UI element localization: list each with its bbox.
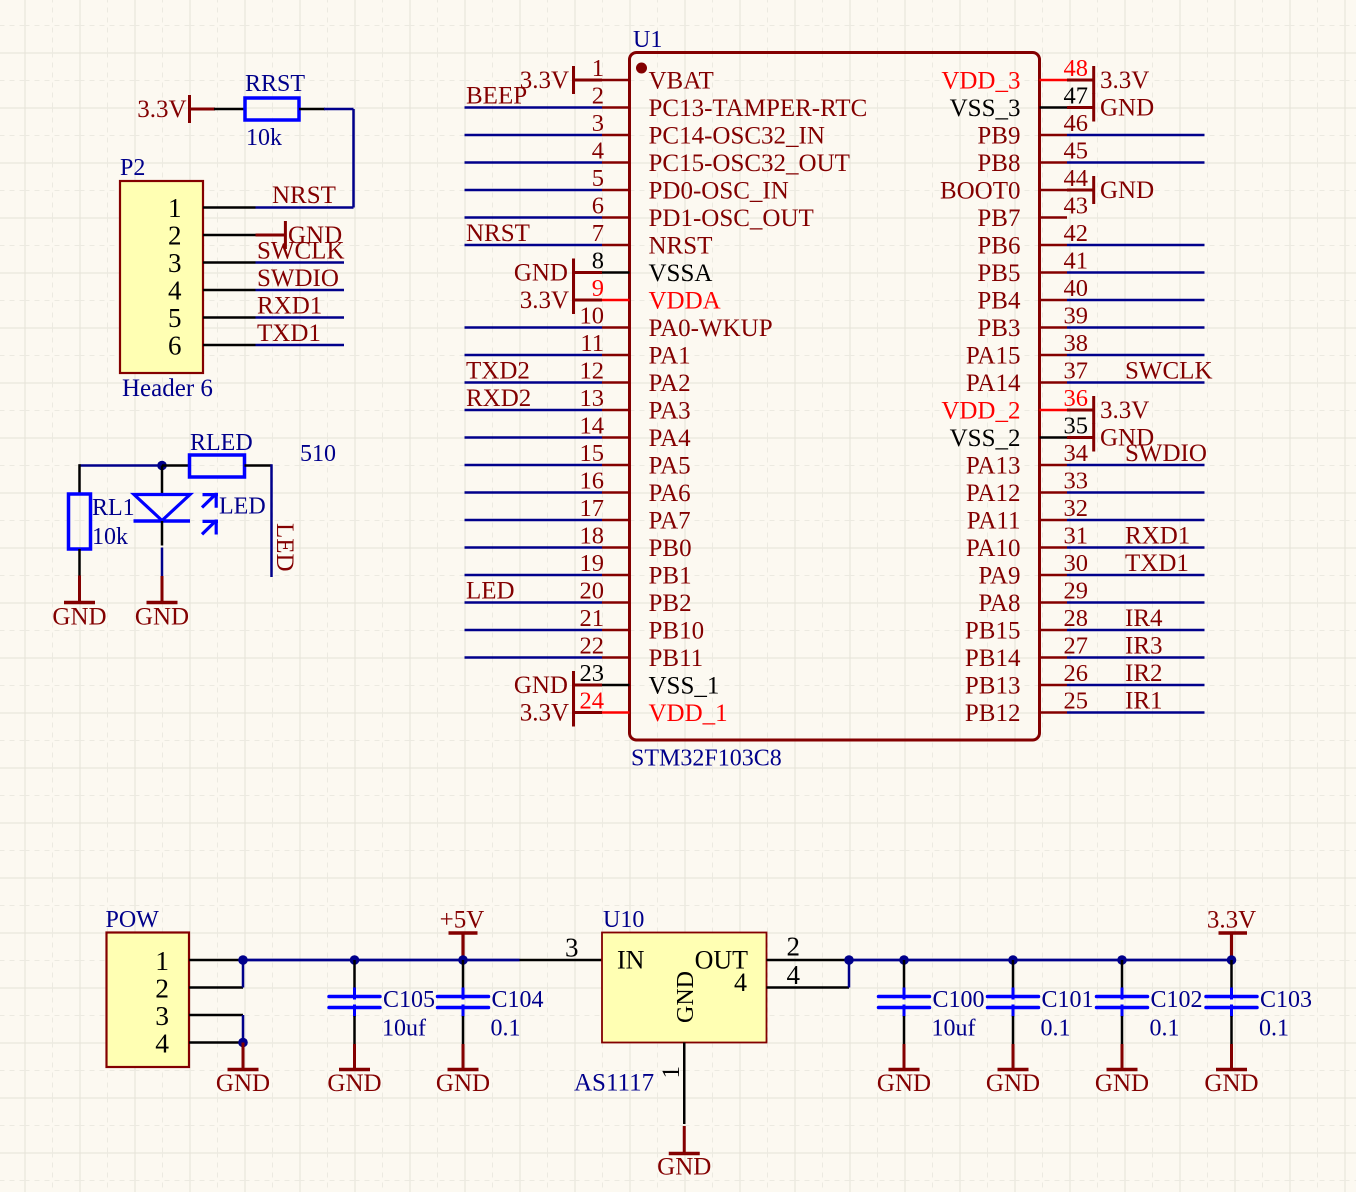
svg-text:PB8: PB8: [977, 150, 1020, 177]
svg-text:TXD1: TXD1: [1125, 550, 1189, 577]
svg-text:AS1117: AS1117: [574, 1070, 654, 1097]
ground below C105: [353, 1044, 356, 1070]
svg-text:PA1: PA1: [649, 343, 691, 370]
wire U1 pin 12: [465, 381, 603, 384]
wire POW pin3 to pin4: [242, 1015, 245, 1043]
svg-text:3.3V: 3.3V: [1100, 67, 1149, 94]
svg-text:2: 2: [592, 83, 604, 110]
svg-text:18: 18: [580, 523, 605, 550]
svg-text:C104: C104: [492, 987, 544, 1013]
LED emission arrows: [202, 493, 218, 535]
svg-text:IN: IN: [617, 946, 645, 975]
U1 pin 39 (PB3): [977, 303, 1088, 343]
svg-text:46: 46: [1064, 110, 1089, 137]
power +5V: [440, 907, 485, 961]
U10 pin 4: [767, 960, 850, 990]
ground GND at U1 pin 23: [514, 671, 602, 699]
svg-text:0.1: 0.1: [1150, 1016, 1180, 1042]
svg-text:VSS_3: VSS_3: [950, 95, 1021, 122]
ground below RL1: [78, 576, 81, 603]
svg-text:C100: C100: [933, 987, 985, 1013]
svg-text:PA0-WKUP: PA0-WKUP: [649, 315, 773, 342]
svg-text:17: 17: [580, 495, 605, 522]
ground below POW: [242, 1043, 245, 1070]
svg-text:19: 19: [580, 550, 605, 577]
svg-text:NRST: NRST: [466, 220, 530, 247]
svg-text:GND: GND: [657, 1154, 711, 1181]
svg-text:3.3V: 3.3V: [520, 287, 569, 314]
svg-text:10uf: 10uf: [932, 1016, 976, 1042]
svg-text:24: 24: [580, 688, 605, 715]
U1 pin 37 (PA14): [966, 358, 1088, 398]
U1 pin 10 (PA0-WKUP): [580, 303, 773, 343]
svg-text:PA3: PA3: [649, 398, 691, 425]
svg-text:15: 15: [580, 440, 605, 467]
svg-text:3: 3: [565, 933, 579, 963]
svg-text:PA6: PA6: [649, 480, 691, 507]
svg-text:RLED: RLED: [190, 430, 253, 456]
U1 pin 2 (PC13-TAMPER-RTC): [592, 83, 868, 123]
U1 pin 6 (PD1-OSC_OUT): [592, 193, 814, 233]
POW pin 3: [155, 1000, 243, 1031]
svg-text:1: 1: [168, 193, 182, 223]
svg-text:32: 32: [1064, 495, 1089, 522]
svg-text:26: 26: [1064, 660, 1089, 687]
svg-text:RXD2: RXD2: [466, 385, 531, 412]
svg-text:3.3V: 3.3V: [520, 700, 569, 727]
U1 pin 34 (PA13): [966, 440, 1088, 480]
wire LED top rail: [80, 464, 163, 494]
svg-text:PA13: PA13: [966, 453, 1021, 480]
svg-text:10k: 10k: [92, 524, 128, 550]
svg-text:44: 44: [1064, 165, 1089, 192]
svg-text:GND: GND: [436, 1070, 490, 1097]
junction LED rail: [157, 461, 167, 471]
ground below C103: [1230, 1044, 1233, 1070]
svg-text:4: 4: [734, 968, 747, 997]
resistor RLED: [190, 455, 272, 477]
svg-text:PB5: PB5: [977, 260, 1020, 287]
wire P2 SWDIO: [256, 289, 345, 292]
capacitor C103: [1206, 960, 1257, 1044]
svg-text:25: 25: [1064, 688, 1089, 715]
U1 pin 17 (PA7): [580, 495, 691, 535]
svg-text:GND: GND: [514, 672, 568, 699]
svg-text:12: 12: [580, 358, 605, 385]
capacitor C104: [438, 960, 489, 1044]
wire U1 pin 5: [465, 189, 603, 192]
svg-text:510: 510: [300, 441, 336, 467]
svg-text:IR2: IR2: [1125, 660, 1163, 687]
svg-text:29: 29: [1064, 578, 1089, 605]
wire U1 pin 22: [465, 656, 603, 659]
svg-text:9: 9: [592, 275, 604, 302]
U1 pin 15 (PA5): [580, 440, 691, 480]
wire U1 pin 14: [465, 436, 603, 439]
U1 pin 24 (VDD_1): [580, 688, 728, 728]
U1 pin 35 (VSS_2): [950, 413, 1088, 453]
svg-text:1: 1: [592, 55, 604, 82]
wire 3.3V rail: [849, 959, 1232, 962]
svg-text:34: 34: [1064, 440, 1089, 467]
svg-text:0.1: 0.1: [1259, 1016, 1289, 1042]
svg-text:41: 41: [1064, 248, 1089, 275]
capacitor C100: [879, 960, 930, 1044]
svg-text:SWCLK: SWCLK: [257, 238, 345, 265]
svg-text:GND: GND: [986, 1070, 1040, 1097]
svg-text:BOOT0: BOOT0: [940, 178, 1021, 205]
svg-text:BEEP: BEEP: [466, 83, 527, 110]
P2 pin 4: [168, 276, 256, 306]
svg-text:8: 8: [592, 248, 604, 275]
svg-text:PC14-OSC32_IN: PC14-OSC32_IN: [649, 123, 825, 150]
svg-text:PA9: PA9: [978, 563, 1020, 590]
svg-text:3: 3: [168, 248, 182, 278]
capacitor C102: [1097, 960, 1148, 1044]
svg-text:22: 22: [580, 633, 605, 660]
svg-text:5: 5: [168, 303, 182, 333]
U1 pin 1 (VBAT): [592, 55, 714, 95]
ground GND at U1 pin 8: [514, 259, 602, 287]
svg-text:U10: U10: [603, 907, 644, 933]
wire U1 pin 11: [465, 354, 603, 357]
junction C104: [458, 955, 468, 965]
connector P2 Header 6 body: [120, 181, 203, 373]
svg-text:STM32F103C8: STM32F103C8: [631, 746, 782, 772]
svg-text:4: 4: [168, 276, 182, 306]
svg-text:3.3V: 3.3V: [1100, 397, 1149, 424]
wire U1 pin 41: [1067, 271, 1205, 274]
svg-text:4: 4: [155, 1028, 169, 1059]
svg-text:3.3V: 3.3V: [137, 96, 186, 123]
svg-text:14: 14: [580, 413, 605, 440]
U1 pin 41 (PB5): [977, 248, 1088, 288]
svg-text:GND: GND: [135, 604, 189, 631]
svg-text:1: 1: [658, 1066, 685, 1079]
svg-text:PD1-OSC_OUT: PD1-OSC_OUT: [649, 205, 814, 232]
ground below U10: [683, 1126, 686, 1154]
svg-text:42: 42: [1064, 220, 1089, 247]
svg-text:PA12: PA12: [966, 480, 1021, 507]
svg-text:PA8: PA8: [978, 590, 1020, 617]
ground below LED: [161, 576, 164, 603]
wire U1 pin 26: [1067, 684, 1205, 687]
wire U1 pin 13: [465, 409, 603, 412]
wire U1 pin 39: [1067, 326, 1205, 329]
U1 pin 32 (PA11): [967, 495, 1088, 535]
svg-text:PB15: PB15: [965, 618, 1021, 645]
U10 pin 3 (IN): [520, 933, 603, 963]
U1 pin 29 (PA8): [978, 578, 1088, 618]
wire U1 pin 31: [1067, 546, 1205, 549]
resistor RL1: [69, 494, 91, 576]
P2 pin 2: [168, 221, 256, 251]
svg-text:43: 43: [1064, 193, 1089, 220]
svg-text:LED: LED: [466, 578, 515, 605]
U1 pin 40 (PB4): [977, 275, 1088, 315]
ground GND at P2 pin 2: [256, 221, 343, 249]
wire U1 pin 18: [465, 546, 603, 549]
ground below C102: [1121, 1044, 1124, 1070]
wire U1 pin 45: [1067, 161, 1205, 164]
junction POW pin4: [238, 1038, 248, 1048]
U1 pin 47 (VSS_3): [950, 83, 1088, 123]
svg-text:PB10: PB10: [649, 618, 705, 645]
wire U1 pin 17: [465, 519, 603, 522]
P2 pin 3: [168, 248, 256, 278]
wire U1 pin 30: [1067, 574, 1205, 577]
junction C101: [1008, 955, 1018, 965]
svg-text:GND: GND: [216, 1070, 270, 1097]
wire LED cathode to ground: [161, 548, 164, 577]
U1 pin 48 (VDD_3): [941, 55, 1088, 95]
U1 pin 18 (PB0): [580, 523, 692, 563]
svg-text:PB12: PB12: [965, 700, 1021, 727]
svg-text:GND: GND: [1100, 95, 1154, 122]
P2 pin 5: [168, 303, 256, 333]
svg-text:40: 40: [1064, 275, 1089, 302]
svg-text:4: 4: [787, 960, 801, 990]
wire U1 pin 2: [465, 106, 603, 109]
svg-text:2: 2: [155, 973, 169, 1004]
U1 pin 21 (PB10): [580, 605, 705, 645]
svg-text:3: 3: [592, 110, 604, 137]
wire P2 RXD1: [256, 316, 345, 319]
svg-text:PA4: PA4: [649, 425, 692, 452]
wire U1 pin 25: [1067, 711, 1205, 714]
wire U1 pin 29: [1067, 601, 1205, 604]
svg-text:0.1: 0.1: [1041, 1016, 1071, 1042]
connector POW body: [107, 933, 190, 1068]
POW pin 1: [155, 945, 243, 976]
junction C105: [350, 955, 360, 965]
svg-text:1: 1: [155, 945, 169, 976]
U1 pin 36 (VDD_2): [941, 385, 1088, 425]
svg-text:POW: POW: [106, 907, 160, 933]
svg-text:11: 11: [580, 330, 604, 357]
wire 3.3V to RRST: [214, 108, 245, 111]
U1 pin 33 (PA12): [966, 468, 1088, 508]
wire U1 pin 46: [1067, 134, 1205, 137]
junction C103: [1227, 955, 1237, 965]
wire U1 pin 3: [465, 134, 603, 137]
POW pin 2: [155, 973, 243, 1004]
svg-text:47: 47: [1064, 83, 1089, 110]
svg-text:31: 31: [1064, 523, 1089, 550]
svg-text:VDDA: VDDA: [649, 288, 721, 315]
wire U1 pin 32: [1067, 519, 1205, 522]
svg-text:35: 35: [1064, 413, 1089, 440]
svg-text:28: 28: [1064, 605, 1089, 632]
wire junction to LED anode: [161, 466, 164, 495]
U10 pin 2 (OUT): [767, 932, 850, 962]
svg-text:6: 6: [592, 193, 604, 220]
svg-text:GND: GND: [514, 260, 568, 287]
wire P2 TXD1: [256, 344, 345, 347]
capacitor C101: [988, 960, 1039, 1044]
svg-text:RL1: RL1: [92, 495, 135, 521]
wire U1 pin 20: [465, 601, 603, 604]
wire U1 pin 7: [465, 244, 603, 247]
svg-text:C105: C105: [383, 987, 435, 1013]
U1 pin 45 (PB8): [977, 138, 1088, 178]
wire U1 pin 42: [1067, 244, 1205, 247]
wire U1 pin 21: [465, 629, 603, 632]
svg-text:10: 10: [580, 303, 605, 330]
svg-text:3.3V: 3.3V: [1207, 907, 1256, 934]
wire P2 SWCLK: [256, 261, 345, 264]
svg-text:LED: LED: [219, 494, 266, 520]
svg-text:SWDIO: SWDIO: [257, 265, 339, 292]
svg-text:+5V: +5V: [440, 907, 485, 934]
svg-text:GND: GND: [877, 1070, 931, 1097]
svg-text:PB9: PB9: [977, 123, 1020, 150]
U1 pin 31 (PA10): [966, 523, 1088, 563]
wire U1 pin 16: [465, 491, 603, 494]
svg-text:LED: LED: [271, 523, 298, 572]
svg-text:PA7: PA7: [649, 508, 691, 535]
U1 pin 42 (PB6): [977, 220, 1088, 260]
svg-text:GND: GND: [1204, 1070, 1258, 1097]
U1 pin 26 (PB13): [965, 660, 1088, 700]
wire U1 pin 4: [465, 161, 603, 164]
svg-text:RXD1: RXD1: [257, 293, 322, 320]
power 3.3V at U1 pin 9: [520, 286, 602, 314]
svg-text:39: 39: [1064, 303, 1089, 330]
U1 pin 30 (PA9): [978, 550, 1088, 590]
svg-text:5: 5: [592, 165, 604, 192]
U1 pin 20 (PB2): [580, 578, 692, 618]
svg-text:7: 7: [592, 220, 604, 247]
wire U1 pin 19: [465, 574, 603, 577]
svg-text:GND: GND: [673, 971, 699, 1023]
wire RLED down to LED net: [270, 464, 273, 577]
svg-text:PA11: PA11: [967, 508, 1021, 535]
svg-text:6: 6: [168, 331, 182, 361]
svg-text:2: 2: [787, 932, 801, 962]
svg-text:GND: GND: [52, 604, 106, 631]
capacitor C105: [329, 960, 380, 1044]
voltage regulator U10 AS1117 body: [602, 933, 767, 1043]
wire U1 pin 15: [465, 464, 603, 467]
svg-text:PB2: PB2: [649, 590, 692, 617]
P2 pin 6: [168, 331, 256, 361]
diode LED: [134, 495, 191, 546]
svg-text:10k: 10k: [246, 125, 282, 151]
svg-text:SWCLK: SWCLK: [1125, 358, 1213, 385]
ground GND at U1 pin 47: [1067, 94, 1154, 122]
svg-text:37: 37: [1064, 358, 1089, 385]
svg-text:VSSA: VSSA: [649, 260, 713, 287]
IC U1 STM32F103C8 body: [630, 53, 1040, 741]
svg-text:NRST: NRST: [649, 233, 713, 260]
svg-text:38: 38: [1064, 330, 1089, 357]
junction C102: [1117, 955, 1127, 965]
power 3.3V (RRST pull-up): [137, 95, 215, 123]
svg-text:0.1: 0.1: [491, 1016, 521, 1042]
P2 pin 1: [168, 193, 256, 223]
wire U1 pin 37: [1067, 381, 1205, 384]
wire junction to RLED: [162, 464, 190, 467]
svg-text:RXD1: RXD1: [1125, 523, 1190, 550]
svg-text:Header 6: Header 6: [122, 375, 213, 402]
svg-text:C102: C102: [1151, 987, 1203, 1013]
svg-text:PB0: PB0: [649, 535, 692, 562]
U10 pin 1 (GND): [658, 1043, 685, 1125]
ground GND at U1 pin 35: [1067, 424, 1154, 452]
svg-text:PB7: PB7: [977, 205, 1020, 232]
wire U10 pin4 to pin2: [848, 960, 851, 988]
svg-text:13: 13: [580, 385, 605, 412]
U1 pin 12 (PA2): [580, 358, 691, 398]
U1 pin 28 (PB15): [965, 605, 1088, 645]
power 3.3V output: [1207, 907, 1256, 961]
U1 pin 11 (PA1): [580, 330, 690, 370]
svg-text:VDD_1: VDD_1: [649, 700, 728, 727]
svg-text:VDD_3: VDD_3: [941, 68, 1020, 95]
svg-text:VDD_2: VDD_2: [941, 398, 1020, 425]
svg-text:10uf: 10uf: [382, 1016, 426, 1042]
svg-text:IR3: IR3: [1125, 633, 1163, 660]
wire U1 pin 28: [1067, 629, 1205, 632]
svg-text:PA2: PA2: [649, 370, 691, 397]
svg-text:27: 27: [1064, 633, 1089, 660]
U1 pin 19 (PB1): [580, 550, 692, 590]
U1 pin 23 (VSS_1): [580, 660, 720, 700]
U1 pin 7 (NRST): [592, 220, 713, 260]
U1 pin 38 (PA15): [966, 330, 1088, 370]
ground GND at U1 pin 44: [1067, 176, 1154, 204]
U1 pin 5 (PD0-OSC_IN): [592, 165, 789, 205]
wire U1 pin 34: [1067, 464, 1205, 467]
U1 pin 8 (VSSA): [592, 248, 713, 288]
svg-text:SWDIO: SWDIO: [1125, 440, 1207, 467]
U1 pin 14 (PA4): [580, 413, 692, 453]
U1 pin 22 (PB11): [580, 633, 704, 673]
svg-text:PA15: PA15: [966, 343, 1021, 370]
wire U1 pin 10: [465, 326, 603, 329]
ground below C101: [1012, 1044, 1015, 1070]
wire U1 pin 6: [465, 216, 603, 219]
svg-text:PB3: PB3: [977, 315, 1020, 342]
svg-text:PB13: PB13: [965, 673, 1021, 700]
U1 pin 9 (VDDA): [592, 275, 721, 315]
wire RRST to NRST net corner: [256, 109, 354, 208]
svg-text:NRST: NRST: [272, 182, 336, 209]
svg-text:PA14: PA14: [966, 370, 1021, 397]
power 3.3V at U1 pin 24: [520, 699, 602, 727]
U1 pin 16 (PA6): [580, 468, 691, 508]
svg-text:VBAT: VBAT: [649, 68, 714, 95]
wire U1 pin 27: [1067, 656, 1205, 659]
svg-text:PA10: PA10: [966, 535, 1021, 562]
svg-text:IR4: IR4: [1125, 605, 1163, 632]
svg-text:PC15-OSC32_OUT: PC15-OSC32_OUT: [649, 150, 850, 177]
svg-text:PB1: PB1: [649, 563, 692, 590]
svg-text:23: 23: [580, 660, 605, 687]
svg-text:VSS_2: VSS_2: [950, 425, 1021, 452]
svg-text:PB6: PB6: [977, 233, 1020, 260]
svg-text:3: 3: [155, 1000, 169, 1031]
U1 pin 46 (PB9): [977, 110, 1088, 150]
svg-text:20: 20: [580, 578, 605, 605]
svg-text:U1: U1: [633, 27, 662, 53]
svg-text:45: 45: [1064, 138, 1089, 165]
junction POW pin1: [238, 955, 248, 965]
junction C100: [899, 955, 909, 965]
wire U1 pin 33: [1067, 491, 1205, 494]
svg-text:PB14: PB14: [965, 645, 1021, 672]
